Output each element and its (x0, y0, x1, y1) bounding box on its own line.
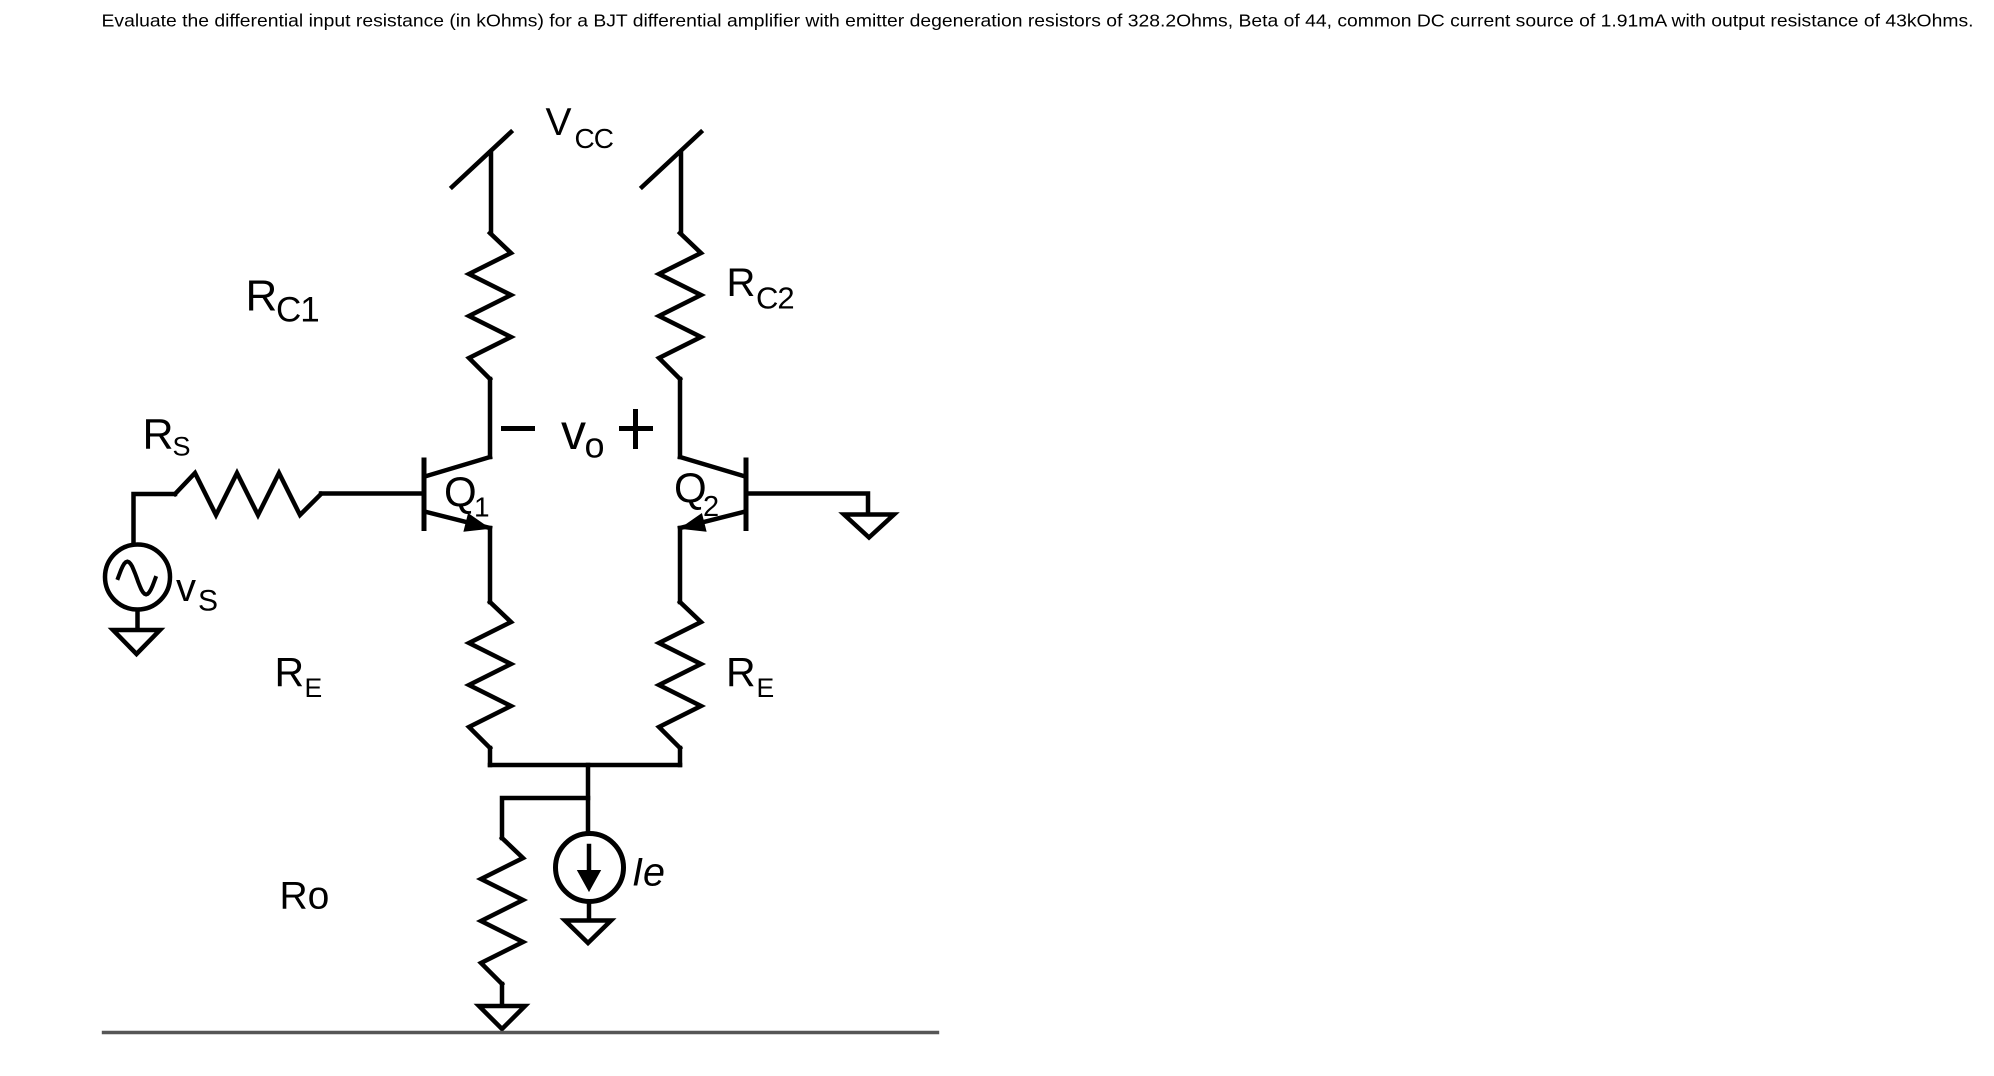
transistor Q1 (424, 457, 490, 531)
svg-text:E: E (757, 673, 775, 703)
svg-text:v: v (561, 404, 586, 460)
wire Q2 base to ground (749, 494, 869, 516)
wire node to current source (586, 765, 591, 833)
resistor RC1 (469, 233, 511, 379)
label Ro (280, 875, 330, 918)
svg-text:Q: Q (674, 464, 707, 511)
svg-text:CC: CC (575, 123, 614, 154)
resistor RE right (659, 602, 701, 748)
svg-text:V: V (546, 101, 572, 144)
svg-text:C2: C2 (756, 281, 794, 316)
label Q1 (444, 468, 490, 523)
minus sign (vo polarity) (504, 426, 533, 431)
svg-text:v: v (176, 566, 196, 610)
wire Q1 emitter to RE (488, 528, 493, 602)
resistor RE left (469, 602, 511, 748)
wire current source to ground (587, 903, 592, 921)
wire RC1 to Q1 collector (488, 379, 493, 457)
Vcc power stub left (452, 132, 511, 233)
svg-text:Ie: Ie (632, 851, 665, 895)
transistor Q2 (680, 457, 746, 531)
ground (Q2 base) (844, 515, 894, 538)
wire RE left lead (488, 748, 493, 765)
wire RC2 to Q2 collector (678, 379, 683, 457)
baseline rule (104, 1031, 938, 1034)
svg-text:C1: C1 (276, 291, 319, 330)
wire emitter common node (490, 763, 680, 768)
ground (current source) (565, 921, 611, 944)
wire Ro lead (500, 984, 505, 1006)
label RC2 (727, 261, 794, 316)
svg-text:S: S (173, 432, 191, 462)
label Rs (143, 411, 191, 462)
label RE left (275, 649, 323, 703)
svg-text:Q: Q (444, 468, 477, 515)
wire Vs to ground (135, 612, 140, 631)
resistor RC2 (659, 233, 701, 379)
svg-text:Evaluate the differential inpu: Evaluate the differential input resistan… (102, 11, 1974, 31)
source Vs (105, 545, 170, 610)
ground (Vs) (113, 630, 160, 654)
wire Q1 base (321, 491, 422, 496)
svg-text:R: R (246, 272, 278, 321)
label Q2 (674, 464, 719, 523)
wire Vs to Rs (134, 494, 176, 543)
wire Q2 emitter to RE (678, 528, 683, 602)
label RE right (726, 649, 774, 703)
svg-text:Ro: Ro (280, 875, 330, 918)
plus sign (vo polarity) (622, 412, 651, 447)
wire RE right lead (678, 748, 683, 765)
resistor Rs (175, 473, 321, 515)
label RC1 (246, 272, 319, 330)
svg-text:1: 1 (474, 492, 490, 523)
svg-text:E: E (305, 673, 323, 703)
label Vcc (546, 101, 614, 154)
svg-text:R: R (275, 649, 305, 695)
label vs (176, 566, 218, 618)
wire node to Ro branch (502, 798, 588, 838)
label vo (561, 404, 605, 466)
svg-text:R: R (143, 411, 174, 459)
svg-text:R: R (727, 261, 756, 305)
svg-text:S: S (198, 585, 218, 618)
current source Ie (556, 834, 624, 902)
svg-text:2: 2 (703, 491, 719, 523)
resistor Ro (481, 838, 523, 984)
label Ie (632, 851, 665, 895)
Vcc power stub right (642, 132, 701, 233)
svg-text:R: R (726, 649, 756, 695)
svg-text:o: o (585, 425, 605, 466)
ground (Ro) (479, 1006, 525, 1029)
